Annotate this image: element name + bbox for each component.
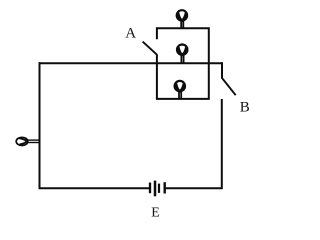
lamp L4 (left side, horizontal) <box>16 137 40 145</box>
wire bottom left (to battery) <box>39 187 150 189</box>
svg-text:B: B <box>240 100 250 116</box>
wire right vertical lower <box>221 99 223 189</box>
lamp L3 (bottom) <box>175 81 185 99</box>
svg-text:E: E <box>151 206 160 221</box>
wire bottom right (from battery) <box>166 187 223 189</box>
svg-text:A: A <box>125 26 136 42</box>
switch B blade <box>223 79 236 96</box>
lamp L1 (top) <box>177 10 187 29</box>
switch A blade <box>143 42 158 55</box>
box around lamps (left edge broken by switch A) <box>157 28 209 99</box>
lamp L2 (middle) <box>177 45 187 63</box>
wire left vertical <box>39 62 41 189</box>
battery E <box>150 181 165 197</box>
wire right stub upper (to switch B) <box>221 62 223 79</box>
wire top horizontal (node through box) <box>39 62 223 64</box>
